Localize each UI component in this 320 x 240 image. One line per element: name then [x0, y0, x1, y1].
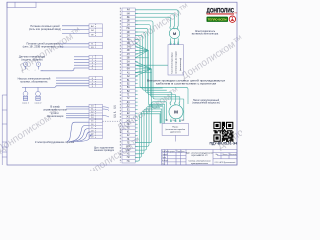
- svg-text:(повышенной мощности): (повышенной мощности): [192, 102, 220, 105]
- svg-text:Масса: Масса: [223, 154, 228, 156]
- svg-text:Щит: подключение: Щит: подключение: [94, 147, 115, 149]
- label: exhaust fan motor: [192, 30, 219, 36]
- label: alarm network: [47, 111, 64, 118]
- svg-text:(подачи, обратки): (подачи, обратки): [21, 58, 42, 62]
- svg-text:Дата: Дата: [181, 151, 185, 153]
- svg-text:5Ф: 5Ф: [127, 57, 130, 60]
- svg-text:ПДУ-ВК.05.01-Э4: ПДУ-ВК.05.01-Э4: [209, 142, 237, 146]
- svg-text:4Н: 4Н: [127, 54, 130, 56]
- frequency converter box: [168, 45, 184, 75]
- svg-text:+: +: [21, 70, 22, 72]
- svg-text:двигателя): двигателя): [170, 131, 181, 133]
- svg-text:Частотный преобраз.: Частотный преобраз.: [170, 51, 173, 73]
- svg-text:ЗЕ: ЗЕ: [127, 17, 130, 19]
- svg-text:(вентилятор): (вентилятор): [180, 58, 182, 71]
- motor M2 (circulation pump): [169, 102, 183, 122]
- svg-text:1Н: 1Н: [127, 24, 130, 26]
- svg-text:вентилятора вытяжки: вентилятора вытяжки: [176, 51, 178, 74]
- svg-text:управления котлом: управления котлом: [43, 109, 67, 112]
- connector block XT4: [89, 77, 103, 88]
- svg-text:™: ™: [234, 11, 237, 15]
- pump connection box: [162, 124, 189, 136]
- terminal strip XT (panel): [122, 8, 135, 163]
- svg-text:вытяжного вентилятора: вытяжного вентилятора: [192, 33, 219, 36]
- connector block XT6: [89, 119, 103, 138]
- svg-text:3Н: 3Н: [127, 47, 130, 49]
- svg-text:кабелем в соответствии с проек: кабелем в соответствии с проектом: [156, 83, 217, 86]
- svg-text:Масштаб: Масштаб: [229, 154, 236, 156]
- top-left reference cell: [7, 2, 36, 7]
- svg-text:Пров.: Пров.: [162, 157, 167, 159]
- svg-text:ЩЭО-АВР.01 У2: ЩЭО-АВР.01 У2: [191, 154, 208, 157]
- svg-text:W: W: [177, 42, 179, 44]
- pump symbol labels: [22, 102, 29, 104]
- left field wiring: [22, 26, 93, 142]
- svg-text:Разраб.: Разраб.: [162, 154, 168, 156]
- label: circulation pump: [192, 99, 220, 105]
- svg-text:Н.контр.: Н.контр.: [162, 160, 169, 162]
- label: boiler cabinet: [43, 105, 67, 112]
- svg-text:внешних проводок: внешних проводок: [94, 150, 115, 152]
- sensor terminal marks: [21, 70, 42, 72]
- svg-text:М: М: [174, 110, 178, 115]
- svg-text:ПЕ: ПЕ: [127, 28, 131, 30]
- svg-text:4Ф: 4Ф: [127, 49, 130, 52]
- temperature sensor BK1: [23, 62, 27, 69]
- label: pumps: [18, 77, 51, 84]
- motor M1 (exhaust fan): [169, 22, 179, 45]
- wire number marks: [113, 105, 117, 118]
- svg-text:(сеть или резервный ввод): (сеть или резервный ввод): [29, 27, 61, 31]
- svg-text:ООО «НПО Донполиском»: ООО «НПО Донполиском»: [215, 162, 236, 164]
- svg-text:V1: V1: [173, 120, 175, 122]
- connector block XT2: [89, 42, 103, 48]
- teal panel-to-field wiring: [135, 10, 188, 161]
- connector block XT3: [89, 55, 103, 69]
- label: control circuits: [23, 42, 64, 49]
- dashed link XT6 to strip: [103, 120, 121, 122]
- left margin stamp cells: [2, 95, 7, 165]
- label: panel note: [94, 147, 115, 152]
- connector block XT5: [89, 104, 103, 118]
- svg-text:Щит электрооборудования: Щит электрооборудования: [186, 152, 214, 154]
- pump box ground stub: [174, 135, 176, 141]
- svg-text:(сеть 1Ф, 230В переменного ток: (сеть 1Ф, 230В переменного тока): [23, 45, 64, 49]
- svg-text:принципиальная: принципиальная: [191, 163, 209, 165]
- connector block XT1: [89, 24, 103, 37]
- svg-text:2Е: 2Е: [127, 39, 130, 41]
- temperature sensor BK2: [36, 62, 40, 69]
- label: power supply circuits: [29, 24, 61, 31]
- hooks from connector XT5 to strip: [103, 107, 110, 117]
- svg-text:ТЕПЛО ВСЕМ: ТЕПЛО ВСЕМ: [208, 18, 228, 22]
- svg-text:W1: W1: [181, 120, 184, 122]
- title block: [162, 150, 238, 166]
- company logo: [207, 7, 238, 22]
- svg-text:насос 2: насос 2: [35, 102, 42, 104]
- svg-text:2Н: 2Н: [127, 35, 130, 37]
- svg-text:насос 1: насос 1: [22, 102, 29, 104]
- svg-text:6Ф: 6Ф: [127, 64, 130, 67]
- watermark: [0, 2, 282, 184]
- svg-text:ДОНПОЛИС: ДОНПОЛИС: [207, 7, 235, 14]
- svg-text:6Н: 6Н: [127, 69, 130, 71]
- pump unit symbol 1: [23, 89, 28, 100]
- svg-text:сигнализации: сигнализации: [47, 115, 64, 118]
- svg-text:Лит.: Лит.: [215, 154, 219, 156]
- svg-text:колонки, обогреватель: колонки, обогреватель: [20, 80, 48, 84]
- drawing frame: [7, 2, 237, 165]
- label: temperature sensors: [19, 55, 45, 62]
- QR code: [213, 122, 234, 142]
- pump terminal labels: [166, 120, 184, 122]
- svg-text:U1: U1: [166, 120, 168, 122]
- installation note: [147, 79, 226, 85]
- pump unit symbol 2: [36, 89, 41, 100]
- svg-text:1Ф: 1Ф: [127, 20, 130, 23]
- svg-text:5Н: 5Н: [127, 61, 130, 63]
- svg-text:+: +: [34, 70, 35, 72]
- panel boundary (dashed): [119, 8, 121, 163]
- svg-text:2Ф: 2Ф: [127, 31, 130, 34]
- svg-text:3Ф: 3Ф: [127, 42, 130, 45]
- label: burner equipment: [35, 140, 75, 144]
